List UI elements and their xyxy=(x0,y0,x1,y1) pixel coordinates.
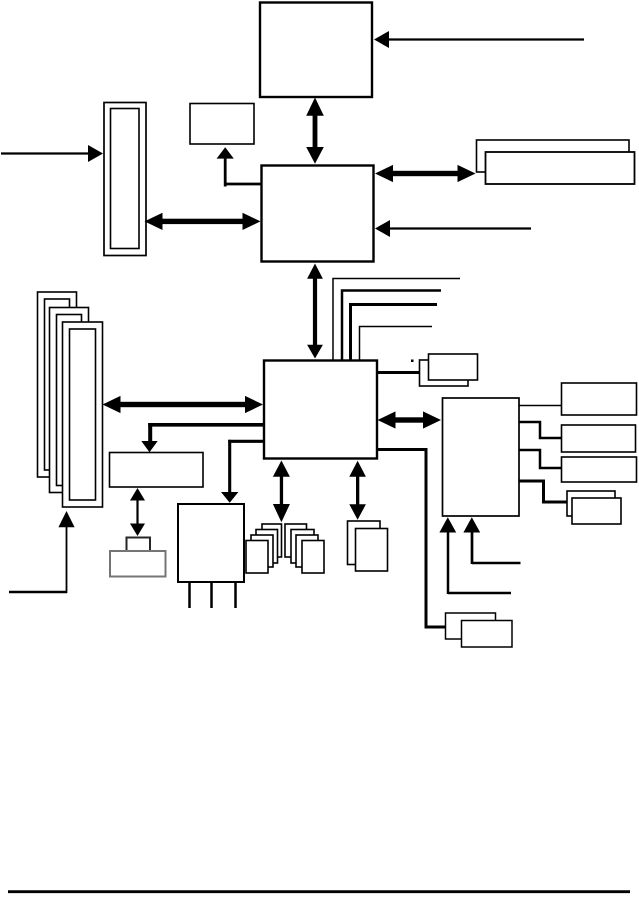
wire L3 xyxy=(351,305,438,361)
peripheral P3 xyxy=(562,457,637,482)
Super IO box xyxy=(443,398,520,516)
USB right fan rect E xyxy=(285,524,307,557)
DIMM back rect xyxy=(477,140,630,172)
peripheral P2 xyxy=(562,425,636,452)
thick double arrow SB-USB cluster xyxy=(273,461,290,523)
arrow into NB from right xyxy=(375,220,531,237)
CPU box xyxy=(260,3,372,98)
arrow into CPU from right xyxy=(374,31,584,48)
wire SB to IDE rects xyxy=(377,371,419,374)
double arrow BIOS-battery xyxy=(130,488,145,536)
North Bridge box xyxy=(262,166,374,262)
wire SuperIO to P1 xyxy=(519,405,561,407)
USB right fan rect F xyxy=(291,530,314,564)
peripheral P4 back rect xyxy=(567,491,615,516)
wire SB to codec with down arrow xyxy=(221,440,264,503)
PCI slot 1 outer xyxy=(38,292,77,477)
wire up into PCI slots xyxy=(9,511,75,593)
PCI slot 3 inner xyxy=(70,329,96,500)
thick double arrow AGP-NB xyxy=(145,213,261,230)
floppy front rect xyxy=(462,621,513,648)
IDE front rect xyxy=(429,354,478,380)
codec box xyxy=(178,504,244,582)
USB left fan rect A xyxy=(262,524,282,557)
wire SuperIO to P3 xyxy=(520,450,562,468)
BIOS box xyxy=(110,453,204,488)
USB left fan rect D xyxy=(246,541,268,574)
wire L4 xyxy=(360,327,433,361)
PCI slot 2 outer xyxy=(50,308,89,493)
stray dot xyxy=(411,360,414,363)
PCI slot 3 outer xyxy=(63,322,103,507)
wire up into SuperIO 1 xyxy=(439,517,511,594)
clock generator box xyxy=(190,104,254,145)
thick double arrow CPU-NB xyxy=(306,98,324,164)
PCI slot 1 inner xyxy=(45,299,70,470)
wire L1 xyxy=(333,279,460,361)
wire SuperIO to P4 xyxy=(520,481,568,502)
peripheral P1 xyxy=(562,383,637,415)
wire up into SuperIO 2 xyxy=(463,517,520,564)
battery top rect xyxy=(127,538,151,552)
codec leg 3 xyxy=(234,582,237,608)
footer rule xyxy=(8,890,630,893)
thick double arrow NB-SB xyxy=(307,264,323,359)
wire L2 xyxy=(342,291,441,361)
LAN back rect xyxy=(348,521,381,565)
LAN front rect xyxy=(356,529,388,572)
thick double arrow SB-SuperIO xyxy=(378,411,442,428)
wire SB to floppy rects xyxy=(377,450,445,628)
AGP slot outer xyxy=(104,103,146,256)
wire SB to BIOS with down arrow xyxy=(141,423,263,452)
USB right fan rect G xyxy=(296,535,318,567)
peripheral P4 front rect xyxy=(572,498,621,524)
USB left fan rect B xyxy=(256,530,278,564)
battery bottom rect xyxy=(110,551,166,577)
floppy back rect xyxy=(446,613,496,639)
codec leg 1 xyxy=(188,582,191,608)
codec leg 2 xyxy=(210,582,213,608)
arrow into AGP from page left xyxy=(1,145,103,162)
wire SuperIO to P2 xyxy=(520,422,562,438)
USB right fan rect H xyxy=(302,541,324,574)
thick double arrow PCI-SB xyxy=(103,396,264,413)
thick double arrow SB-LAN cluster xyxy=(349,461,366,520)
thick double arrow NB-DIMM xyxy=(375,165,476,182)
PCI slot 2 inner xyxy=(57,315,82,486)
USB left fan rect C xyxy=(251,535,273,567)
AGP slot inner xyxy=(111,109,140,249)
IDE back rect xyxy=(420,360,469,386)
South Bridge box xyxy=(264,361,377,459)
DIMM front rect xyxy=(486,152,635,184)
clock wire with up arrow xyxy=(217,147,262,186)
